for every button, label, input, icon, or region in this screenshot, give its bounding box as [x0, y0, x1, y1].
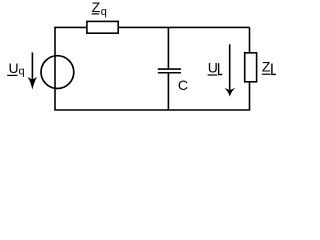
label UL [208, 60, 223, 76]
wire capacitor lower [167, 74, 169, 111]
label Uq [7, 60, 24, 78]
svg-text:U: U [208, 60, 218, 76]
svg-text:Z: Z [92, 0, 101, 15]
arrow UL head [224, 88, 235, 97]
svg-text:Z: Z [262, 59, 271, 75]
wire capacitor upper [167, 27, 169, 68]
svg-text:C: C [178, 77, 188, 93]
arrow UL shaft [229, 44, 231, 91]
wire top left segment [55, 26, 87, 28]
impedance ZL box [245, 53, 257, 82]
wire right lower segment [249, 82, 251, 110]
impedance Zq box [87, 21, 118, 33]
wire top middle segment [118, 26, 249, 28]
voltage source Uq circle [41, 56, 74, 89]
capacitor C plates [158, 69, 181, 73]
svg-text:U: U [8, 60, 18, 76]
arrow Uq shaft [31, 52, 33, 82]
wire left [54, 27, 56, 110]
label ZL [262, 59, 276, 75]
wire bottom [54, 109, 250, 111]
arrow Uq head [28, 77, 38, 90]
label Zq [92, 0, 107, 18]
svg-text:q: q [101, 6, 107, 18]
svg-text:q: q [19, 66, 25, 78]
wire right upper segment [249, 27, 251, 52]
